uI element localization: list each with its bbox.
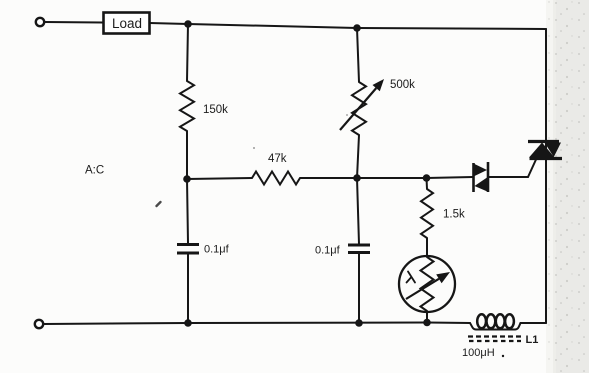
wire 500k to middle rail	[357, 135, 359, 178]
node bottom-middle junction	[355, 319, 363, 327]
photoresistor LDR	[399, 256, 455, 312]
variable resistor 500k	[340, 79, 415, 135]
resistor 1.5k	[421, 189, 433, 238]
wire cap to bottom rail	[358, 254, 360, 324]
inductor L1	[462, 314, 538, 359]
svg-text:150k: 150k	[203, 104, 228, 116]
diac D1	[474, 162, 489, 192]
wire 47k to middle node	[300, 177, 357, 179]
wire middle rail left to 47k	[187, 178, 252, 179]
load box	[104, 13, 150, 34]
svg-text:100μH: 100μH	[462, 347, 495, 359]
wire middle branch to cap	[357, 178, 359, 244]
svg-text:Load: Load	[112, 16, 142, 31]
wire middle rail to right node	[357, 177, 427, 179]
wire left branch to cap	[187, 179, 188, 243]
node top-left junction	[184, 20, 192, 28]
wire 1.5k to LDR	[426, 238, 428, 257]
wire gate diagonal to triac	[528, 160, 536, 178]
wire middle branch upper	[357, 28, 359, 82]
capacitor C2 0.1uf	[315, 245, 370, 257]
svg-text:47k: 47k	[268, 153, 287, 165]
svg-text:500k: 500k	[390, 79, 415, 91]
wire LDR to bottom rail	[426, 311, 428, 322]
bottom rail wire	[44, 323, 471, 325]
scan speck	[346, 114, 348, 116]
resistor 47k	[252, 172, 300, 185]
wire cap to bottom rail	[187, 254, 189, 323]
triac Q1	[528, 142, 562, 159]
node right-middle junction	[423, 174, 431, 182]
terminal top-left	[36, 18, 44, 26]
scan speck	[157, 202, 161, 206]
wire 150k to middle rail	[186, 131, 188, 179]
node bottom-left junction	[184, 319, 192, 327]
wire diac to gate bend	[489, 176, 528, 178]
svg-text:1.5k: 1.5k	[443, 209, 465, 221]
svg-text:A:C: A:C	[85, 165, 104, 177]
wire coil to right rail	[521, 322, 547, 324]
node top-middle junction	[353, 24, 361, 32]
wire Load to node	[150, 23, 189, 24]
right rail wire	[545, 29, 547, 323]
top rail wire	[188, 24, 546, 29]
svg-text:L1: L1	[526, 334, 539, 346]
resistor 150k	[180, 81, 194, 131]
wire left branch upper	[187, 24, 188, 81]
wire middle rail to diac	[427, 177, 474, 178]
scan speck	[253, 147, 255, 149]
svg-text:0.1μf: 0.1μf	[204, 244, 230, 256]
node left-middle junction	[183, 175, 191, 183]
wire node to 1.5k	[426, 178, 429, 189]
node middle junction	[353, 174, 361, 182]
wire terminal to Load	[45, 21, 104, 24]
terminal bottom-left	[35, 320, 43, 328]
svg-text:0.1μf: 0.1μf	[315, 245, 341, 257]
capacitor C1 0.1uf	[177, 244, 230, 256]
scan gray band right margin	[553, 0, 589, 373]
node bottom-right junction	[423, 319, 431, 327]
